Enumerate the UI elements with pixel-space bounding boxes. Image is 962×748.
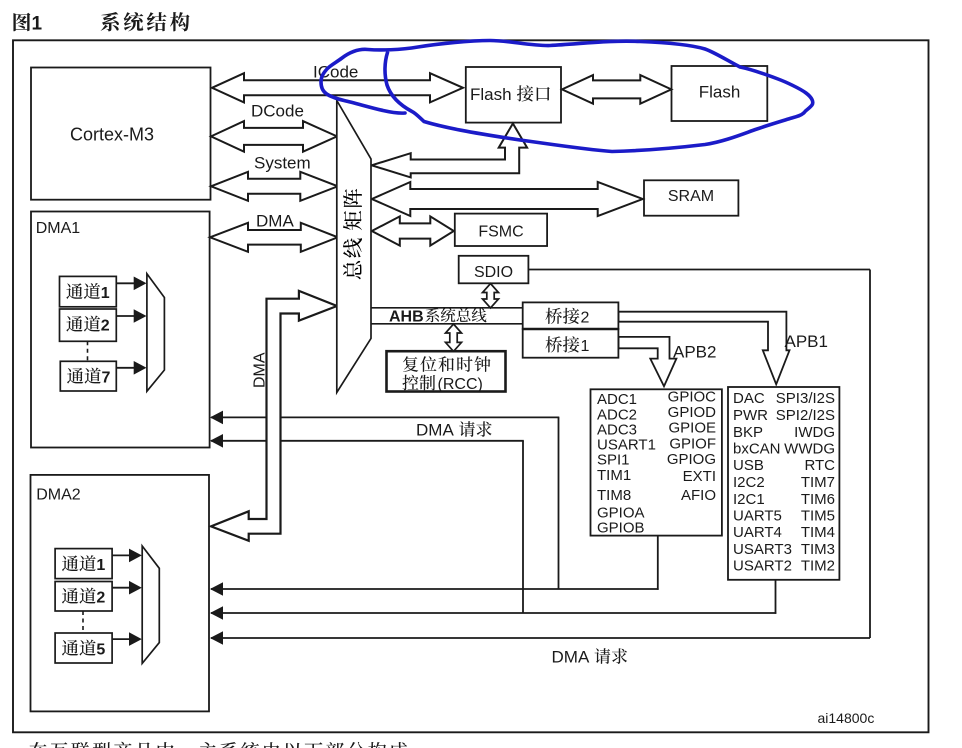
svg-text:7: 7: [102, 369, 111, 386]
wire DMA2 channel5 to mux: [112, 638, 130, 640]
svg-text:bxCAN: bxCAN: [733, 441, 781, 458]
Bridge2 box: [523, 302, 619, 329]
RCC box: [387, 351, 506, 391]
Bridge1 box: [523, 329, 619, 358]
DMA2 channel1 box: [55, 549, 112, 579]
svg-text:USART3: USART3: [733, 541, 792, 558]
blue hand-drawn ellipse annotation: [321, 41, 813, 152]
DMA1 channel7 box: [60, 361, 116, 391]
bridge divider: [523, 328, 619, 331]
DMA1 channel2 box: [60, 309, 117, 341]
DMA2 mux: [142, 546, 159, 663]
svg-text:APB1: APB1: [785, 332, 828, 351]
svg-text:GPIOG: GPIOG: [667, 451, 716, 468]
svg-text:SRAM: SRAM: [668, 188, 714, 205]
bus matrix trapezoid: [337, 101, 371, 393]
DMA2 channel2 box: [55, 582, 112, 612]
svg-text:DCode: DCode: [251, 102, 304, 121]
title figure number: [13, 13, 30, 32]
svg-text:ai14800c: ai14800c: [818, 710, 875, 726]
svg-text:TIM3: TIM3: [801, 541, 835, 558]
System bus arrow: [211, 172, 338, 201]
wire channel7 to mux: [116, 367, 134, 369]
DMA2 box: [31, 475, 210, 712]
svg-text:DMA: DMA: [256, 211, 294, 230]
svg-text:AFIO: AFIO: [681, 487, 716, 504]
wire APB2 requests to DMA2: [211, 588, 659, 590]
wire APB2 box down: [657, 536, 659, 590]
wire APB1 box down: [775, 580, 777, 614]
arrowhead request DMA1 lower: [210, 434, 223, 448]
wire APB2 requests to DMA1: [211, 416, 559, 418]
svg-text:AHB: AHB: [389, 309, 424, 326]
svg-text:GPIOE: GPIOE: [668, 420, 716, 437]
ICode bus arrow: [212, 73, 463, 102]
arrowhead request DMA1 upper: [210, 411, 223, 425]
wire DMA request bottom to DMA2: [211, 637, 870, 639]
bottom sentence clipped: [29, 742, 47, 748]
svg-text:PWR: PWR: [733, 407, 768, 424]
svg-text:DMA: DMA: [252, 352, 269, 388]
svg-text:TIM6: TIM6: [801, 491, 835, 508]
SRAM box: [644, 180, 738, 215]
svg-text:UART5: UART5: [733, 508, 782, 525]
svg-text:(RCC): (RCC): [438, 376, 483, 393]
wire DMA2 channel2 to mux: [112, 587, 130, 589]
svg-text:Flash: Flash: [699, 83, 741, 102]
bus-matrix to Flash-interface bent arrow: [372, 124, 527, 178]
arrowhead request DMA2 line3: [210, 631, 223, 645]
svg-text:2: 2: [581, 310, 590, 327]
DMA1 box: [31, 212, 210, 448]
bus-matrix to FSMC arrow: [372, 216, 454, 245]
wire DMA2 channel1 to mux: [112, 554, 130, 556]
bridge1 to APB2 bent arrow: [619, 337, 677, 386]
svg-text:SPI3/I2S: SPI3/I2S: [776, 390, 835, 407]
svg-text:TIM7: TIM7: [801, 474, 835, 491]
title text: [101, 12, 119, 31]
svg-text:SPI1: SPI1: [597, 452, 630, 469]
svg-text:I2C2: I2C2: [733, 474, 765, 491]
svg-text:2: 2: [101, 317, 110, 334]
svg-text:5: 5: [96, 641, 105, 658]
svg-text:EXTI: EXTI: [683, 468, 716, 485]
SDIO to AHB vertical arrow: [483, 284, 499, 309]
arrowhead request DMA2 line1: [210, 582, 223, 596]
DMA2 channel5 box: [55, 633, 112, 663]
svg-text:1: 1: [96, 557, 105, 574]
svg-text:I2C1: I2C1: [733, 491, 765, 508]
wire APB1 requests to DMA1: [211, 440, 524, 442]
wire channel2 to mux: [116, 315, 134, 317]
wire channel1 to mux: [116, 282, 134, 284]
svg-text:DMA: DMA: [416, 421, 454, 440]
svg-text:2: 2: [96, 589, 105, 606]
svg-text:GPIOB: GPIOB: [597, 519, 645, 536]
APB2 peripherals box: [591, 389, 722, 535]
wire branch up at x559: [558, 417, 560, 589]
svg-text:TIM4: TIM4: [801, 524, 835, 541]
DMA1 channel1 box: [60, 276, 117, 306]
wire branch up at x523: [522, 441, 524, 613]
svg-text:APB2: APB2: [673, 343, 716, 362]
bridge2 to APB1 bent arrow: [619, 312, 790, 385]
FSMC box: [455, 214, 547, 246]
label bus-matrix vertical: [343, 261, 361, 279]
svg-text:TIM8: TIM8: [597, 487, 631, 504]
svg-text:USART2: USART2: [733, 558, 792, 575]
svg-text:USB: USB: [733, 457, 764, 474]
Flash-interface to Flash arrow: [562, 75, 671, 104]
svg-text:WWDG: WWDG: [784, 441, 835, 458]
svg-text:System: System: [254, 154, 311, 173]
svg-text:TIM5: TIM5: [801, 508, 835, 525]
svg-text:IWDG: IWDG: [794, 424, 835, 441]
wire APB1 requests to DMA2: [211, 612, 776, 614]
Cortex-M3 box: [31, 68, 211, 200]
svg-text:RTC: RTC: [804, 457, 835, 474]
svg-text:FSMC: FSMC: [478, 224, 523, 241]
svg-text:1: 1: [101, 285, 110, 302]
arrowhead request DMA2 line2: [210, 606, 223, 620]
DMA bus arrow: [210, 223, 338, 252]
APB1 peripherals box: [728, 387, 839, 580]
DMA2 channel dots: [82, 611, 84, 633]
AHB to RCC vertical arrow: [446, 324, 462, 351]
svg-text:TIM1: TIM1: [597, 467, 631, 484]
svg-text:DMA2: DMA2: [36, 487, 81, 504]
wire right wall down: [869, 270, 871, 639]
svg-text:DAC: DAC: [733, 390, 765, 407]
Flash box: [672, 66, 768, 121]
svg-text:1: 1: [32, 14, 43, 35]
svg-text:Flash: Flash: [470, 85, 512, 104]
DMA1 mux: [147, 274, 165, 392]
svg-text:SPI2/I2S: SPI2/I2S: [776, 407, 835, 424]
svg-text:BKP: BKP: [733, 424, 763, 441]
svg-text:UART4: UART4: [733, 524, 782, 541]
svg-text:GPIOF: GPIOF: [669, 435, 716, 452]
svg-text:TIM2: TIM2: [801, 558, 835, 575]
Flash interface box: [466, 67, 561, 123]
DCode bus arrow: [211, 121, 337, 152]
DMA1 channel dots: [87, 341, 89, 360]
AHB system bus band: [371, 307, 523, 309]
svg-text:DMA: DMA: [552, 648, 590, 667]
wire SDIO to right wall: [528, 269, 870, 271]
SDIO box: [459, 256, 529, 283]
svg-text:SDIO: SDIO: [474, 264, 513, 281]
bus-matrix to SRAM arrow: [372, 182, 643, 216]
bus-matrix to DMA2 bent arrow: [211, 291, 337, 541]
svg-text:1: 1: [581, 338, 590, 355]
svg-text:Cortex-M3: Cortex-M3: [70, 125, 154, 145]
svg-text:DMA1: DMA1: [36, 220, 81, 237]
svg-text:GPIOD: GPIOD: [668, 404, 717, 421]
